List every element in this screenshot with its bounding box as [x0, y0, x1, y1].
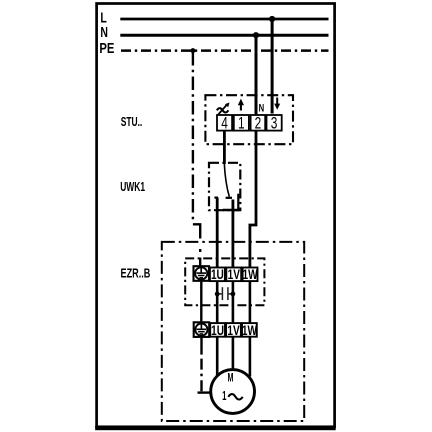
wire N to STU terminal 2	[255, 35, 258, 114]
strip1 terminal 1W	[243, 268, 258, 282]
svg-text:1U: 1U	[211, 267, 224, 283]
wire PE strip2 earth down to motor (partly dash-dot)	[198, 338, 210, 393]
strip2 terminal 1W	[242, 323, 257, 337]
motor label tilde	[228, 394, 242, 399]
wire PE bus (dash-dot)	[121, 49, 329, 52]
switch left contact tick	[214, 197, 218, 199]
wire strip1 1V to strip2 1V	[232, 281, 235, 322]
inner terminal group box (dash-dot)	[185, 258, 264, 305]
strip2 earth terminal	[194, 322, 210, 337]
svg-text:3: 3	[271, 115, 278, 133]
terminal 1 of STU	[234, 115, 249, 131]
svg-text:1W: 1W	[242, 322, 258, 338]
svg-text:1W: 1W	[243, 267, 259, 283]
wire switch left contact to strip1 1U	[216, 198, 219, 268]
wire strip1 1W to strip2 1W	[249, 281, 252, 322]
svg-text:2: 2	[255, 115, 262, 133]
svg-text:PE: PE	[99, 40, 114, 57]
svg-text:1: 1	[238, 115, 245, 133]
strip1 earth terminal	[194, 266, 210, 281]
down arrow above terminal 3	[274, 98, 280, 110]
motor M1 circle	[211, 370, 255, 414]
switch blade end tick	[226, 197, 232, 199]
terminal 3 of STU	[267, 115, 282, 131]
junction dot capacitor left	[215, 292, 220, 297]
svg-text:N: N	[259, 102, 265, 115]
strip2 terminal 1V	[226, 323, 241, 337]
switch contact hook	[237, 194, 239, 210]
svg-text:1: 1	[222, 391, 226, 404]
junction on N	[253, 32, 259, 38]
wire PE strip1 earth to strip2 earth	[200, 282, 202, 323]
terminal 4 of STU	[217, 115, 232, 131]
switch UWK1 blade	[224, 164, 229, 197]
wire strip2 1U to motor	[216, 337, 219, 377]
svg-text:1V: 1V	[227, 322, 240, 338]
wire PE drop (dash-dot with jog)	[193, 52, 200, 266]
terminal 2 of STU	[251, 115, 266, 131]
reversing switch UWK1 enclosure (dash-dot box)	[209, 163, 240, 210]
switch bottom contact bar	[223, 209, 240, 212]
strip1 terminal 1U	[210, 268, 225, 282]
wire strip2 1V to motor	[232, 337, 235, 369]
strip1 terminal 1V	[226, 268, 241, 282]
wire L bus	[120, 18, 328, 21]
wire STU terminal 2 down to strip1 1W (N through wire with jog)	[250, 131, 256, 267]
fan unit EZR..B enclosure (dash-dot box)	[162, 242, 304, 421]
wire N bus	[120, 34, 328, 37]
svg-text:N: N	[100, 23, 108, 40]
svg-text:1U: 1U	[211, 322, 224, 338]
wire strip1 1U to strip2 1U	[216, 281, 219, 322]
capacitor C between 1U and 1V	[217, 287, 233, 300]
wire STU terminal 4 to switch UWK1	[223, 131, 226, 164]
junction on L	[269, 16, 275, 22]
wire strip2 1W to motor	[249, 337, 252, 377]
wire switch right contact to strip1 1V	[231, 200, 234, 268]
svg-text:STU..: STU..	[121, 115, 143, 129]
variable-AC symbol above terminal 4	[217, 103, 230, 115]
svg-text:EZR..B: EZR..B	[121, 267, 151, 281]
wire L to STU terminal 3	[271, 19, 274, 114]
svg-text:M: M	[228, 372, 234, 385]
up arrow above terminal 1	[238, 99, 244, 111]
svg-text:1V: 1V	[228, 267, 241, 283]
junction dot capacitor right	[231, 292, 236, 297]
strip2 terminal 1U	[210, 323, 225, 337]
svg-text:4: 4	[221, 115, 228, 133]
speed controller STU enclosure (dash-dot box)	[205, 95, 293, 144]
svg-text:UWK1: UWK1	[120, 180, 145, 194]
junction on PE	[190, 48, 195, 53]
